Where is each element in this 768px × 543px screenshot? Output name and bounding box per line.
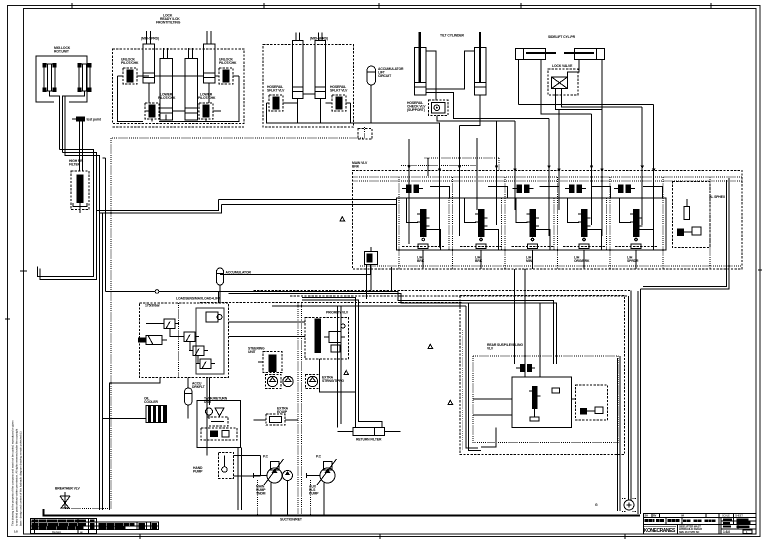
svg-text:DRKFLT: DRKFLT [192,385,206,389]
check valve V1 [120,58,140,85]
pilot valve pv1 [160,319,179,329]
relief pair RV4 [614,185,635,194]
sideshift plumbing wires [519,60,654,237]
check valve V6 [330,85,348,111]
tank outlet wires [238,448,242,511]
svg-text:BRK: BRK [417,259,425,263]
svg-text:VLV: VLV [487,347,494,351]
cylinder CL1 [43,63,57,92]
svg-text:ACCUMULATOR: ACCUMULATOR [226,271,252,275]
svg-text:SFLKT VLV: SFLKT VLV [330,89,348,93]
suspension valve assembly [460,296,625,455]
assembly internal wires [473,303,576,447]
spool tip circles and section stubs [423,250,636,269]
block outline [512,377,572,428]
svg-text:BNK: BNK [352,165,360,169]
internal pilot wires [146,324,199,364]
element e2 [580,408,587,415]
svg-text:BREATHER VLV: BREATHER VLV [55,487,81,491]
heat exchanger HX [103,397,167,423]
svg-text:MIN: MIN [526,259,533,263]
flow meter FM3 [306,371,349,389]
pilot control unit [138,297,229,378]
pump unit 1 [254,455,293,516]
svg-text:FRONT/TILTING: FRONT/TILTING [156,21,181,25]
solenoid box SB [254,407,299,426]
twistlock plumbing wires [118,76,240,122]
svg-text:PILOT/CHK: PILOT/CHK [198,96,216,100]
spool S1 [402,186,449,250]
relief pair RV2 [513,185,534,194]
svg-text:TILT CYLINDER: TILT CYLINDER [440,34,465,38]
mid horizontal wires [229,306,356,428]
feeder arrowheads [407,166,655,172]
cylinder C10 [564,49,605,60]
valve bank right outlet [617,178,728,514]
pilot accumulator A2 [217,268,252,303]
cylinder C5 [293,33,304,99]
cylinder C6 [315,33,326,99]
pilot valve pv3 [189,346,208,356]
hand pump HP [193,453,261,479]
long distribution wires to right [200,291,631,307]
lift cylinder group box [263,33,440,248]
valve block outline [397,198,667,250]
pc valve [271,462,280,471]
svg-text:SH: SH [645,515,649,518]
cylinder C4 [204,31,216,83]
relief pair RV1 [402,185,423,194]
filter FL2 [215,408,224,416]
svg-text:P.C: P.C [316,455,322,459]
tank unit [197,397,241,448]
svg-text:VA: VA [681,515,684,518]
machine boundary dashed [65,127,365,509]
spool S6 [532,386,538,409]
end section relief [673,182,726,248]
svg-text:LOCK VALVE: LOCK VALVE [552,64,573,68]
spool S3 [512,186,559,250]
svg-text:PUMP: PUMP [193,470,203,474]
flow meter FM2 [283,376,293,386]
breather valve [55,487,81,509]
pressure reducer pv5 [138,336,167,345]
gauge G1 [206,408,213,415]
svg-text:175/30bar: 175/30bar [145,304,161,308]
lock valve V7 [407,100,448,116]
drain dotted lines [258,303,311,516]
svg-text:RETURN FILTER: RETURN FILTER [356,438,382,442]
pump PM3 [320,468,335,483]
plug fitting [72,117,102,172]
pilot supply wire [106,290,557,364]
svg-text:COOLER: COOLER [144,400,159,404]
svg-text:SML 16 V STD SC: SML 16 V STD SC [679,530,699,534]
circled G symbol [595,499,637,512]
svg-text:AL SPHEX: AL SPHEX [709,195,726,199]
cylinder C9 [516,49,557,60]
svg-text:RV: RV [653,515,657,518]
svg-text:FILTER: FILTER [69,163,81,167]
svg-text:P.C: P.C [263,455,269,459]
svg-text:test point: test point [87,118,102,122]
left margin rotated text [11,420,23,526]
pilot valve pv4 [196,359,215,369]
svg-text:1:8.0: 1:8.0 [723,530,730,534]
svg-text:LOADSENS/MAXLOAD+LIFT: LOADSENS/MAXLOAD+LIFT [176,297,221,301]
sideshift cylinder pair [516,35,654,236]
suction bus [44,509,641,516]
section boundary dotted verticals [399,177,710,269]
svg-text:EQUIP: EQUIP [277,410,288,414]
svg-text:PILOT/CHK: PILOT/CHK [158,96,176,100]
svg-text:BRK: BRK [475,259,483,263]
svg-text:CIRCUIT: CIRCUIT [378,74,392,78]
spool S2 [460,186,507,250]
filter F1 [69,159,89,213]
svg-text:SFLKT VLV: SFLKT VLV [267,89,285,93]
long pilot line [220,265,371,275]
tilt cylinder pair [407,32,549,126]
spool S5 [615,186,662,250]
svg-text:UNIT: UNIT [248,350,257,354]
supply lines into bank from left [219,200,397,205]
tilt plumbing wires [426,51,549,126]
svg-text:PILOT/CHK: PILOT/CHK [121,61,139,65]
priority valve [305,311,349,360]
small rect below spool [530,417,539,421]
svg-text:SUCTION/RET: SUCTION/RET [280,518,303,522]
check valve V2 [216,58,237,85]
check valve V5 [267,85,285,111]
LS dashed signal lines above bank [358,129,499,171]
wire bundle left long verticals [97,158,222,510]
steering unit [248,347,282,373]
svg-text:SCALE: SCALE [722,515,730,518]
pilot unit outgoing wires [109,378,209,511]
wire rotator to down [50,91,60,150]
relief pair RV3 [565,185,586,194]
small warning triangles [340,217,453,405]
wires down to suspension assembly [466,269,525,451]
pump PM1 [267,468,282,483]
revision table [31,519,159,534]
cylinder C3 [185,48,198,120]
return filter [302,297,401,441]
pump unit 2 [307,455,337,516]
pilot valve pv2 [180,332,199,342]
svg-text:ROT.UNIT: ROT.UNIT [54,50,70,54]
feeder wires into valve bank [409,104,654,244]
svg-text:ORG/BRK: ORG/BRK [574,259,590,263]
rotator unit top-left [36,46,92,153]
svg-text:SPRDR: SPRDR [627,259,639,263]
svg-text:SIDELIFT CYL.PR: SIDELIFT CYL.PR [548,35,576,39]
solenoid pv6 [206,312,222,322]
svg-text:SHEET: SHEET [735,515,743,518]
lift plumbing wires [267,94,440,248]
svg-text:KONECRANES: KONECRANES [644,528,676,534]
cylinder C2 [160,48,173,120]
element e1 [552,388,560,393]
twistlock cylinder group box [113,14,245,128]
svg-text:Revision: Revision [52,530,62,534]
cylinder C7 [414,32,426,95]
main control valve bank [352,161,742,269]
svg-text:laws - design and content of t: laws - design and content of this hydrau… [19,431,23,526]
cylinder CL2 [78,63,92,92]
check valve V3 [145,93,176,120]
pair valve PV [516,364,535,372]
title block [644,514,757,535]
check valve V4 [198,93,216,120]
accumulator A1 [367,66,404,123]
svg-text:PILOT/CHK: PILOT/CHK [219,61,237,65]
cylinder C1 [143,31,155,83]
inlet element P1 [365,247,392,299]
flow meter FM1 [266,375,282,389]
element e3 [595,407,603,414]
svg-text:(SUPPORT): (SUPPORT) [407,108,425,112]
cylinder C8 [474,32,486,95]
svg-text:(MID-SPRD): (MID-SPRD) [310,37,328,41]
rotator housing [36,56,87,102]
spool S4 [563,186,610,250]
wire bundle left upper [38,96,100,280]
lock valve V8 [548,64,578,95]
boost pump PM2 [283,471,293,481]
supply accumulator A3 [185,382,206,419]
